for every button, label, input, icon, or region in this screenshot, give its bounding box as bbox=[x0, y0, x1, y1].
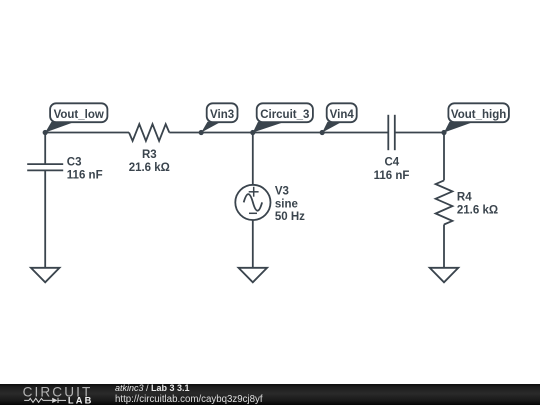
ground middle bbox=[239, 268, 268, 283]
svg-text:Vout_low: Vout_low bbox=[54, 109, 104, 121]
wire Vin4 to C4 bbox=[322, 132, 388, 134]
wire R3 to Vin3 node bbox=[169, 132, 201, 134]
wire Circuit_3 to Vin4 node bbox=[253, 132, 322, 134]
net label Vin4 bbox=[322, 103, 357, 132]
footer bar bbox=[0, 384, 540, 405]
net label Vout_low bbox=[45, 103, 107, 132]
capacitor C3 bbox=[27, 157, 102, 182]
wire right branch upper bbox=[443, 133, 445, 181]
net label Vin3 bbox=[201, 103, 237, 132]
node Vin4 bbox=[320, 130, 325, 135]
svg-text:V3: V3 bbox=[275, 185, 289, 197]
wire C4 to Vout_high node bbox=[395, 132, 444, 134]
svg-text:sine: sine bbox=[275, 198, 298, 210]
svg-text:Vout_high: Vout_high bbox=[451, 109, 506, 121]
svg-text:Circuit_3: Circuit_3 bbox=[260, 109, 309, 121]
svg-text:C4: C4 bbox=[384, 157, 399, 169]
wire left branch upper bbox=[44, 133, 46, 165]
svg-text:116 nF: 116 nF bbox=[374, 170, 410, 182]
svg-text:C3: C3 bbox=[67, 157, 82, 169]
node Circuit_3 bbox=[250, 130, 255, 135]
resistor R4 bbox=[436, 180, 499, 224]
node Vout_low bbox=[43, 130, 48, 135]
ground left bbox=[31, 268, 60, 283]
svg-text:21.6 kΩ: 21.6 kΩ bbox=[129, 162, 170, 174]
svg-text:Vin4: Vin4 bbox=[330, 109, 355, 121]
svg-text:Vin3: Vin3 bbox=[210, 109, 234, 121]
wire middle branch lower bbox=[252, 220, 254, 268]
wire top-left segment bbox=[45, 132, 129, 134]
net label Circuit_3 bbox=[253, 103, 313, 132]
node Vout_high bbox=[441, 130, 446, 135]
wire right branch lower bbox=[443, 225, 445, 268]
svg-text:R3: R3 bbox=[142, 149, 157, 161]
svg-text:R4: R4 bbox=[457, 192, 472, 204]
voltage source V3 bbox=[235, 185, 305, 223]
svg-text:50 Hz: 50 Hz bbox=[275, 211, 305, 223]
wire middle branch upper bbox=[252, 133, 254, 185]
net label Vout_high bbox=[444, 103, 509, 132]
svg-text:21.6 kΩ: 21.6 kΩ bbox=[457, 205, 498, 217]
resistor R3 bbox=[129, 124, 170, 174]
wire Vin3 to Circuit_3 node bbox=[201, 132, 253, 134]
node Vin3 bbox=[199, 130, 204, 135]
capacitor C4 bbox=[374, 115, 410, 182]
title text bbox=[115, 383, 263, 405]
wire left branch lower bbox=[44, 170, 46, 267]
svg-text:116 nF: 116 nF bbox=[67, 169, 103, 181]
ground right bbox=[430, 268, 459, 283]
